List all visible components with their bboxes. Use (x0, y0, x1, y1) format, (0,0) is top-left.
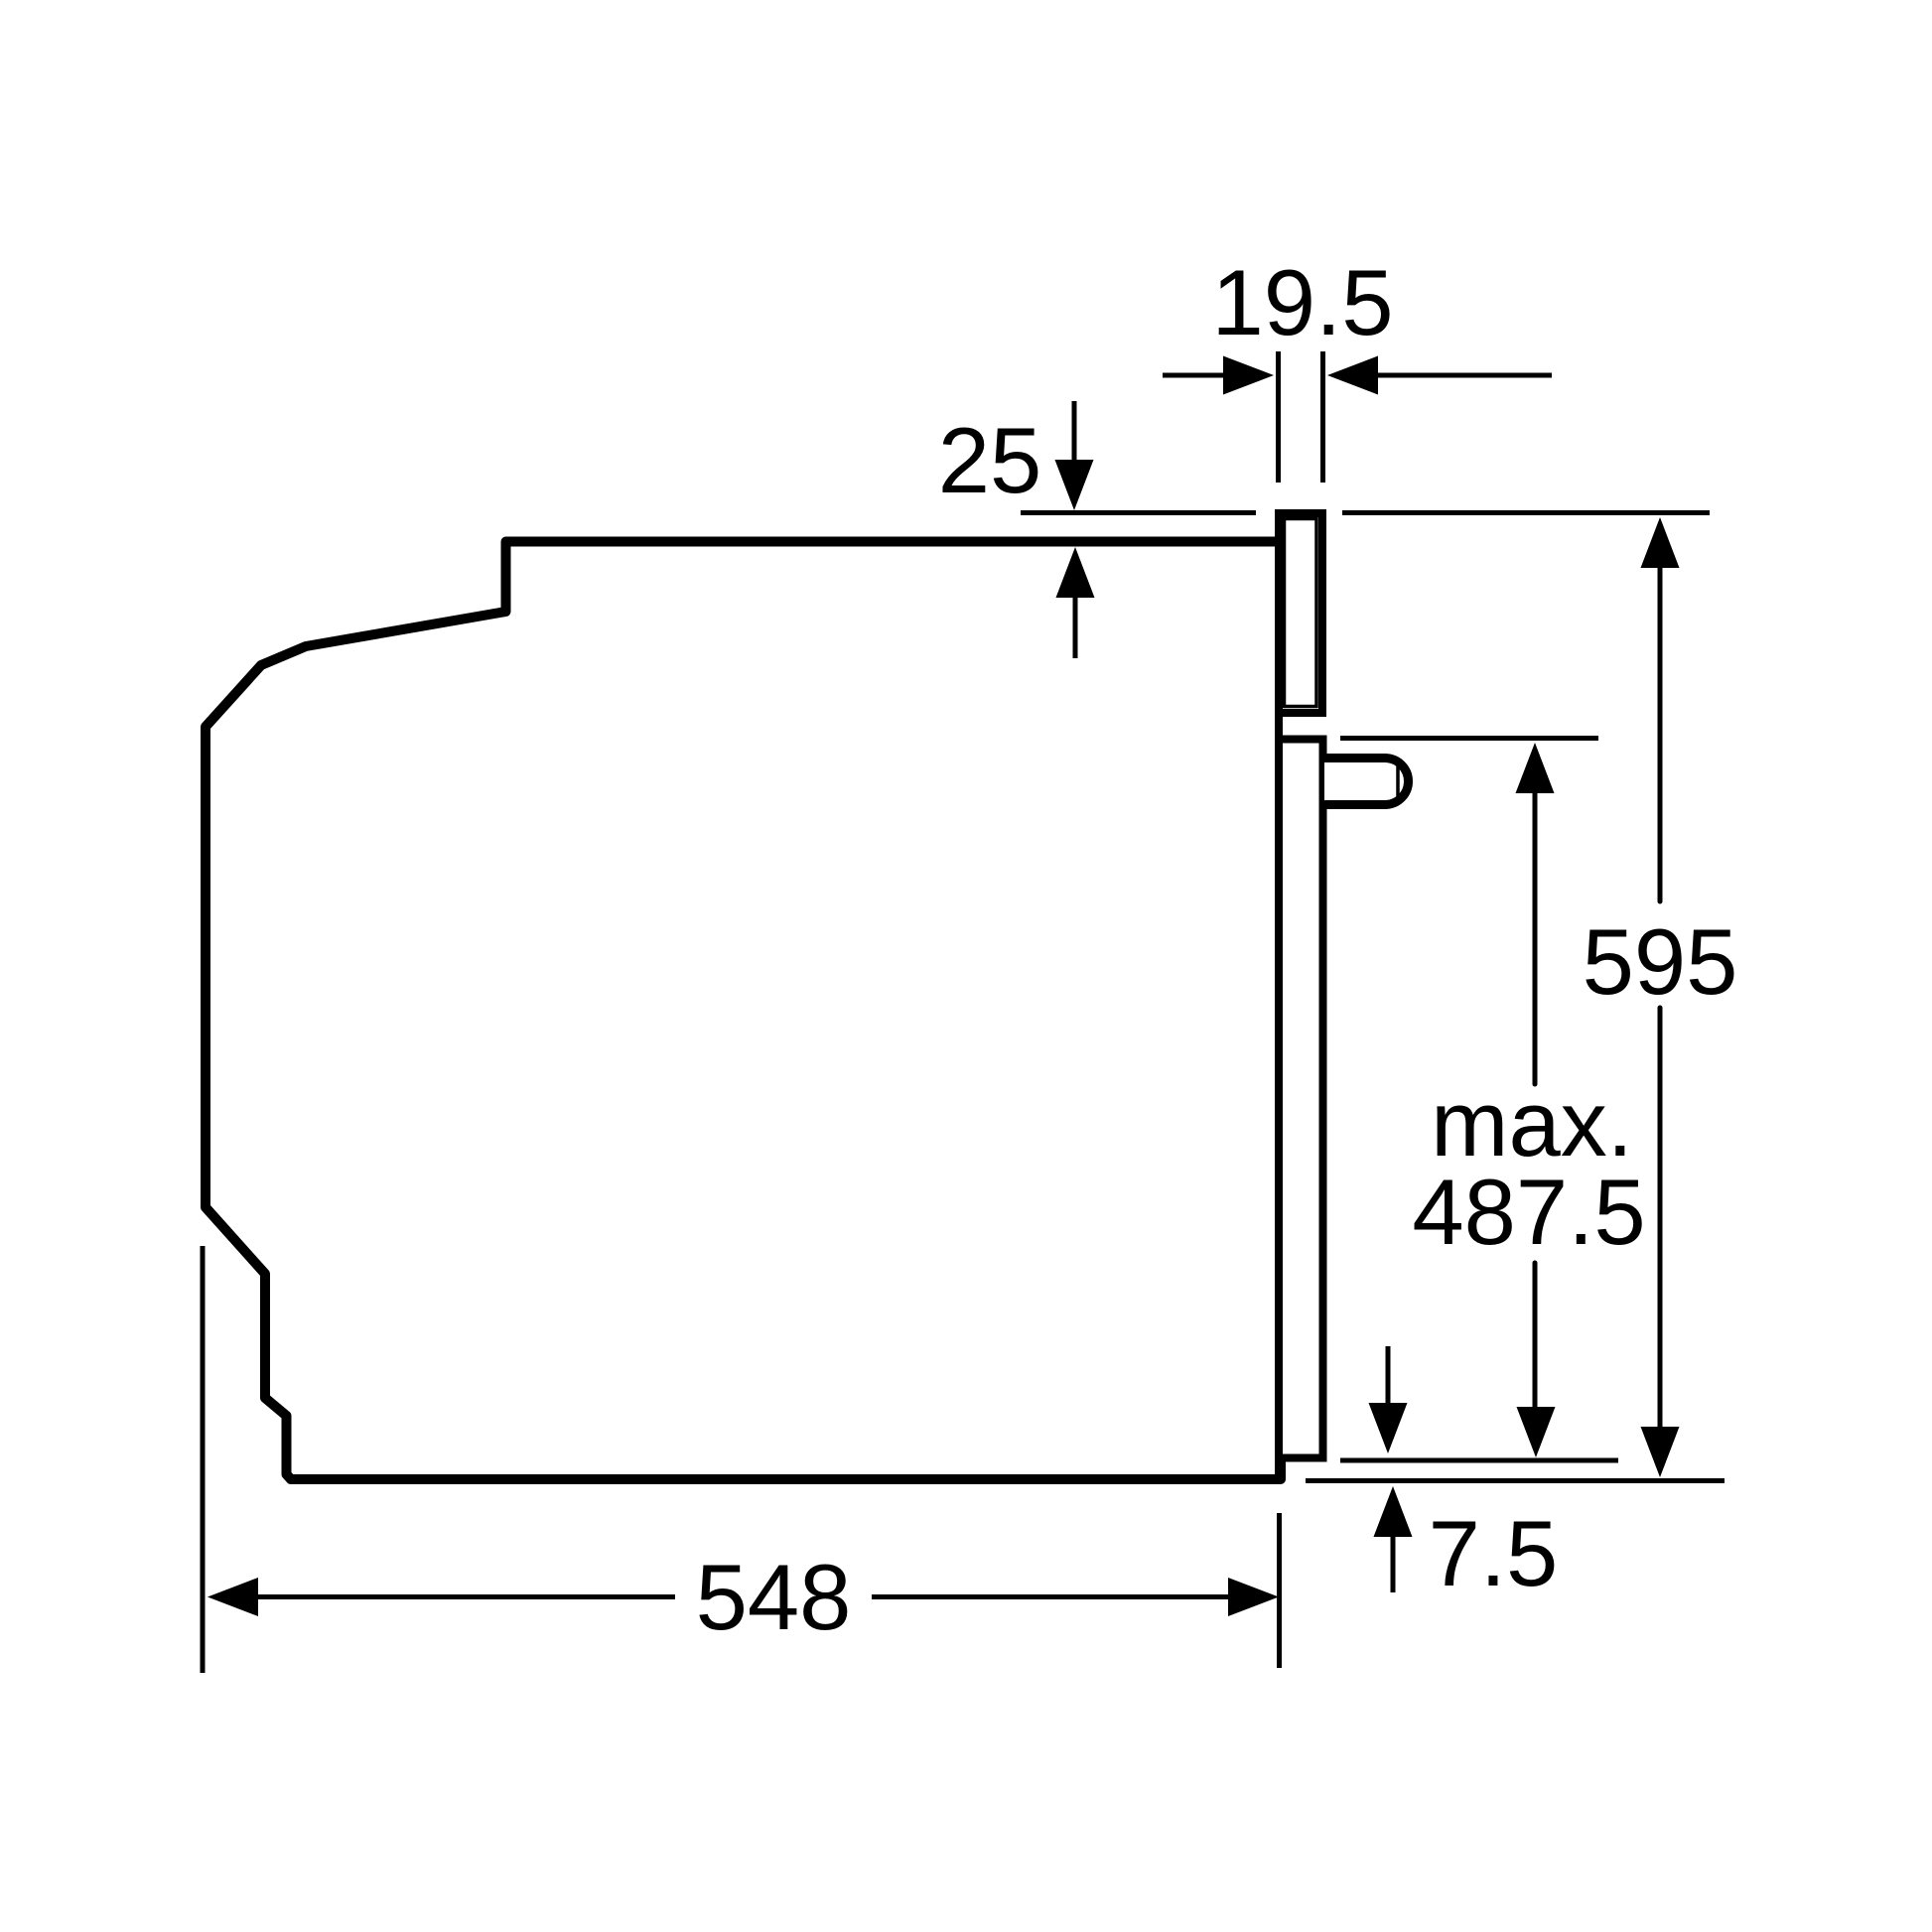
dim 595 bottom arrowhead (1641, 1427, 1680, 1477)
floor line (1306, 1478, 1725, 1483)
dim 487.5 bottom arrowhead (1517, 1407, 1556, 1457)
dim 548 left extension line (201, 1246, 206, 1673)
dim 19.5 extension line right (1320, 351, 1325, 483)
door bottom extension line (1340, 1458, 1618, 1463)
svg-text:595: 595 (1583, 909, 1738, 1014)
dim 19.5 right arrow shaft (1378, 373, 1552, 378)
dim 19.5 left arrow shaft (1163, 373, 1224, 378)
svg-text:25: 25 (938, 408, 1042, 512)
control frame inner (1285, 519, 1317, 707)
dim 19.5 left arrowhead (1223, 356, 1274, 395)
dim 548 right arrowhead (1228, 1578, 1279, 1616)
dim 7.5 up arrowhead (1374, 1486, 1413, 1537)
door front face (1319, 740, 1327, 1458)
dim 595 top arrowhead (1641, 517, 1680, 568)
dim 595 shaft upper (1658, 568, 1663, 901)
dim 487.5 shaft lower (1533, 1263, 1538, 1407)
niche top line right (1342, 510, 1710, 515)
dim 548 shaft left (258, 1594, 675, 1599)
dim 595 shaft lower (1658, 1008, 1663, 1430)
dim 7.5 up arrow shaft (1391, 1537, 1396, 1592)
dim 7.5 down arrowhead (1369, 1403, 1408, 1453)
dim 25 down arrowhead (1055, 460, 1094, 510)
knob outline (1324, 759, 1409, 805)
dim 25 down arrow shaft (1072, 401, 1077, 467)
svg-text:487.5: 487.5 (1412, 1160, 1645, 1264)
niche top line left (1021, 510, 1256, 515)
oven body outline (206, 542, 1281, 1480)
svg-text:19.5: 19.5 (1212, 250, 1394, 354)
dim 548 shaft right (872, 1594, 1231, 1599)
dim 487.5 top arrowhead (1516, 743, 1555, 793)
door top (1275, 736, 1327, 744)
knob level extension line (1340, 736, 1598, 741)
dim 487.5 shaft upper (1533, 792, 1538, 1084)
dim 548 right extension line (1277, 1513, 1282, 1668)
control frame outer (1279, 513, 1322, 713)
knob face line (1396, 761, 1400, 801)
dim 19.5 extension line left (1276, 351, 1281, 483)
dim 7.5 down arrow shaft (1386, 1346, 1391, 1403)
dim 25 up arrowhead (1056, 547, 1095, 598)
dim 19.5 right arrowhead (1327, 356, 1378, 395)
dim 25 up arrow shaft (1073, 598, 1078, 658)
svg-text:7.5: 7.5 (1429, 1501, 1559, 1605)
svg-text:548: 548 (696, 1545, 852, 1649)
oven front edge (1275, 509, 1283, 1478)
door bottom (1277, 1454, 1327, 1462)
dim 548 left arrowhead (207, 1578, 258, 1616)
